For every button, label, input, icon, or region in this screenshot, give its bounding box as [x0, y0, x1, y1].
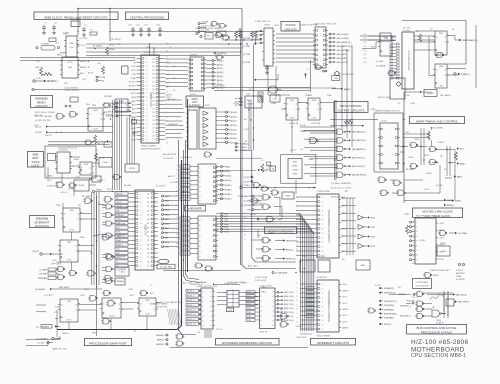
- capacitor osc: [238, 28, 242, 34]
- resistor pullup pair B2: [254, 31, 257, 38]
- capacitor bypass: [139, 27, 143, 33]
- gate busctl B: [260, 186, 269, 191]
- connector RESET bottom: [36, 325, 60, 329]
- title text: [411, 339, 469, 359]
- svg-text:H/Z-100 #85-2806: H/Z-100 #85-2806: [411, 339, 469, 346]
- swap CPU pin boxes left: [394, 43, 399, 79]
- svg-text:(BD) aIOR(L): (BD) aIOR(L): [337, 34, 350, 36]
- svg-text:11: 11: [296, 317, 298, 319]
- svg-text:97 LS04: 97 LS04: [170, 182, 178, 184]
- connector ext gates: [156, 334, 168, 346]
- cpu2 internal pin digits: [140, 193, 150, 267]
- bus AD 5: [179, 140, 197, 335]
- wait state shift register U4: [55, 152, 72, 173]
- svg-text:(C) QSYNC: (C) QSYNC: [241, 205, 252, 207]
- svg-text:(BD) aMRDC(L): (BD) aMRDC(L): [337, 42, 352, 44]
- svg-text:20: 20: [296, 206, 298, 208]
- svg-text:13: 13: [176, 217, 178, 219]
- text busctl: [286, 95, 313, 152]
- small ic U33: [380, 33, 391, 41]
- svg-text:PRE: PRE: [67, 301, 72, 303]
- svg-text:RP120 4MSA: RP120 4MSA: [430, 127, 443, 130]
- svg-text:(BD) MRDC(L): (BD) MRDC(L): [352, 132, 366, 134]
- svg-text:5: 5: [176, 239, 177, 241]
- bus to 8259: [252, 150, 296, 262]
- svg-text:INT8.5(L): INT8.5(L): [117, 235, 126, 237]
- svg-text:R60 SAD(L): R60 SAD(L): [440, 94, 452, 97]
- haze text columns: [166, 57, 415, 328]
- svg-text:8-4.7K: 8-4.7K: [341, 126, 348, 128]
- svg-text:(C) B08: (C) B08: [201, 21, 209, 23]
- svg-text:uRF(OBI): uRF(OBI): [400, 306, 409, 308]
- bottom right wires: [389, 293, 455, 316]
- capacitor bypass: [158, 27, 162, 33]
- svg-text:P6B: P6B: [247, 300, 251, 302]
- svg-text:T-HOLD: T-HOLD: [240, 147, 248, 149]
- svg-text:LS74: LS74: [424, 189, 430, 191]
- svg-text:(C) PNP: (C) PNP: [39, 273, 47, 275]
- gate int ctl A: [279, 314, 288, 320]
- 8253 internal pin digits: [322, 284, 324, 331]
- svg-text:RFSH(L): RFSH(L): [156, 335, 165, 337]
- svg-text:PRE: PRE: [93, 110, 98, 112]
- connector s0s1: [243, 176, 253, 183]
- wire swap feed: [330, 119, 378, 121]
- ground C3: [82, 33, 86, 37]
- gate br G: [415, 314, 424, 319]
- svg-text:MWR(L): MWR(L): [156, 344, 164, 346]
- svg-text:(C): (C): [364, 46, 367, 48]
- gate data enable: [203, 152, 212, 157]
- svg-text:A14(L): A14(L): [225, 193, 232, 196]
- ground C2: [52, 31, 56, 35]
- svg-text:U112: U112: [244, 129, 250, 131]
- svg-text:(C) DMA: (C) DMA: [244, 199, 252, 202]
- arrow swapready: [459, 39, 478, 42]
- gate cpu2 bottom B: [115, 278, 125, 285]
- gate addr low A: [194, 263, 203, 268]
- svg-text:POWER: POWER: [42, 44, 50, 46]
- box under LS10: [270, 95, 280, 102]
- svg-text:7.5 RST: 7.5 RST: [117, 215, 125, 217]
- wire tbus rows: [214, 88, 310, 91]
- svg-text:DRQ3OUT(L): DRQ3OUT(L): [384, 301, 397, 303]
- svg-text:16: 16: [296, 214, 298, 216]
- svg-text:2MHZ: 2MHZ: [440, 243, 446, 245]
- svg-text:AND TIMER CLOCK: AND TIMER CLOCK: [425, 214, 451, 218]
- svg-text:CS WR RD: CS WR RD: [316, 277, 327, 279]
- svg-text:(C): (C): [364, 38, 367, 40]
- wire tank row ext: [243, 150, 252, 152]
- svg-text:4-0.12: 4-0.12: [290, 150, 297, 152]
- connector boxed labels left U16: [180, 165, 198, 201]
- svg-text:U143: U143: [75, 177, 81, 179]
- svg-text:18: 18: [176, 234, 178, 236]
- svg-text:RED(L): RED(L): [447, 200, 454, 202]
- gate br D: [415, 307, 424, 312]
- wire y158 ext: [216, 157, 262, 159]
- svg-text:HOLDSS: HOLDSS: [407, 301, 416, 303]
- svg-text:INTR: INTR: [131, 93, 136, 95]
- svg-text:Vcc C12: Vcc C12: [79, 38, 88, 40]
- crystal X2 oval: [158, 259, 169, 263]
- connector column SD bus: [212, 60, 224, 90]
- svg-text:14: 14: [296, 223, 298, 225]
- svg-text:LS373: LS373: [129, 168, 136, 170]
- svg-text:MICROPROCESSOR: MICROPROCESSOR: [141, 149, 161, 151]
- connector 4M016: [35, 288, 102, 291]
- gate reset F: [261, 256, 270, 262]
- svg-text:U164 U165: U164 U165: [296, 337, 307, 339]
- svg-text:(C) INTA: (C) INTA: [242, 37, 251, 40]
- address buffer U16: [198, 164, 218, 204]
- svg-text:P7B: P7B: [247, 316, 251, 318]
- resistor swap right: [455, 152, 458, 160]
- svg-text:U150: U150: [56, 262, 62, 264]
- svg-text:4: 4: [244, 230, 245, 232]
- text u163: [248, 265, 272, 334]
- svg-text:PRE: PRE: [286, 95, 291, 97]
- gate swap t D: [409, 164, 418, 169]
- svg-text:OUT5: OUT5: [439, 252, 445, 254]
- svg-text:DUAL: DUAL: [456, 275, 462, 278]
- svg-text:(C) HLDA-OUT: (C) HLDA-OUT: [238, 195, 252, 198]
- svg-text:(BD) AIOWC(L): (BD) AIOWC(L): [352, 174, 367, 177]
- svg-text:(BD) aMWTC(L): (BD) aMWTC(L): [337, 46, 352, 48]
- svg-text:MN/MX: MN/MX: [116, 193, 123, 195]
- svg-text:19: 19: [166, 91, 168, 93]
- svg-text:SOD: SOD: [131, 70, 136, 72]
- ground C1: [42, 31, 46, 35]
- flip-flop timer: [437, 246, 450, 256]
- svg-text:HOLD CLK(L): HOLD CLK(L): [378, 97, 391, 99]
- small ic U101: [300, 260, 315, 272]
- connector INT: [32, 251, 63, 255]
- svg-text:8MHZ: 8MHZ: [433, 275, 439, 277]
- latch U163: [260, 288, 276, 329]
- gate cpu2 bottom A: [115, 267, 129, 276]
- text swap cpu top: [403, 28, 411, 33]
- arrow mhrq 2: [330, 124, 364, 127]
- wires interrupt ff internals: [63, 203, 106, 270]
- svg-text:7: 7: [166, 104, 167, 106]
- swap group box: [374, 113, 403, 172]
- svg-text:CLK: CLK: [116, 249, 121, 251]
- svg-text:ADRL 9: ADRL 9: [187, 304, 195, 307]
- svg-text:AB(L): AB(L): [457, 176, 463, 179]
- svg-text:A-8082: A-8082: [190, 54, 198, 57]
- svg-text:(BD) aINTA(L): (BD) aINTA(L): [337, 49, 350, 52]
- svg-text:2: 2: [166, 108, 167, 110]
- 8259 internal pin digits: [322, 197, 324, 257]
- CPU U60 left boxed labels: [115, 192, 128, 268]
- text osc: [195, 21, 271, 30]
- svg-text:CENTRAL PROCESSING: CENTRAL PROCESSING: [130, 15, 165, 19]
- svg-text:(BD) uPINT: (BD) uPINT: [458, 302, 469, 304]
- svg-text:R20 1K: R20 1K: [45, 135, 52, 137]
- arrow mhrq: [404, 91, 432, 94]
- svg-text:RES: RES: [68, 67, 73, 69]
- arrows red amb: [444, 199, 454, 207]
- svg-text:SD0(L): SD0(L): [230, 112, 237, 114]
- svg-text:T2000 PROCESSOR: T2000 PROCESSOR: [407, 50, 409, 71]
- wire left col verticals: [96, 196, 98, 336]
- wires into swap cpu left: [390, 44, 394, 78]
- text left of decoder: [244, 119, 250, 143]
- svg-text:8T 14: 8T 14: [249, 89, 255, 91]
- wire status row to ff: [362, 42, 380, 49]
- svg-text:AD8 - AD7: AD8 - AD7: [248, 265, 259, 268]
- svg-text:INTERRUPT: INTERRUPT: [35, 220, 50, 224]
- junction dots top rows: [187, 39, 256, 100]
- svg-text:(BD) C1(L): (BD) C1(L): [284, 308, 294, 310]
- svg-text:(C) S0: (C) S0: [243, 177, 250, 179]
- extra small parts mid-left: [65, 97, 112, 147]
- row hold: [407, 301, 416, 305]
- svg-text:12: 12: [244, 226, 246, 228]
- cpu1 internal pin digits: [146, 58, 155, 141]
- svg-text:PWL-7: PWL-7: [181, 253, 188, 255]
- bus AD thick: [57, 160, 182, 330]
- svg-text:7: 7: [244, 222, 245, 224]
- svg-text:(C) RD: (C) RD: [233, 103, 240, 105]
- svg-text:SWL(L): SWL(L): [62, 333, 69, 335]
- text label swap note: [52, 348, 68, 351]
- svg-text:19: 19: [176, 195, 178, 197]
- svg-text:RESET(L): RESET(L): [47, 81, 58, 83]
- connector RDY arrow 2: [35, 131, 113, 134]
- svg-text:(C) RDY CE 7B3: (C) RDY CE 7B3: [35, 120, 51, 122]
- svg-text:19: 19: [244, 213, 246, 215]
- left arrow rows bottom right: [379, 287, 398, 326]
- bus AD 3: [186, 140, 200, 280]
- svg-text:A15-A8: A15-A8: [124, 184, 132, 187]
- gate osc out: [423, 273, 432, 278]
- svg-text:1-8082 CPU1 ST: 1-8082 CPU1 ST: [255, 21, 271, 23]
- svg-text:U163: U163: [297, 326, 303, 328]
- svg-text:(C) T-BUS(L): (C) T-BUS(L): [180, 157, 192, 159]
- svg-text:SD2(L): SD2(L): [230, 121, 237, 123]
- svg-text:3: 3: [166, 125, 167, 127]
- svg-text:GATE2: GATE2: [342, 327, 349, 330]
- svg-text:LABEL S.D. P65: LABEL S.D. P65: [52, 348, 68, 351]
- flip-flop busctl U40: [284, 98, 300, 120]
- sip box small: [258, 92, 263, 102]
- svg-text:18: 18: [244, 235, 246, 237]
- gate LS00 right: [314, 65, 322, 70]
- svg-text:(C) T-HOLD: (C) T-HOLD: [214, 86, 226, 88]
- gate extra mid2: [84, 140, 92, 145]
- svg-text:SWAPREADY(L): SWAPREADY(L): [462, 39, 478, 42]
- hold box right: [390, 78, 405, 99]
- and gate column bus outputs: [333, 129, 367, 178]
- text 100k: [95, 150, 105, 160]
- svg-text:74LS164 FLIP-FLOP: 74LS164 FLIP-FLOP: [58, 148, 77, 150]
- svg-text:ADRL 2: ADRL 2: [187, 290, 195, 293]
- junction dots clock: [77, 8, 110, 49]
- ground C18: [265, 71, 269, 75]
- interval timer U103 8253: [317, 280, 341, 332]
- svg-text:LS08: LS08: [414, 139, 420, 141]
- svg-text:8T LS373: 8T LS373: [156, 186, 166, 188]
- svg-text:10: 10: [296, 305, 298, 307]
- svg-text:PRE: PRE: [305, 95, 310, 97]
- svg-text:(C): (C): [364, 34, 367, 36]
- label bus control output: [334, 102, 368, 113]
- status buffer U21: [313, 27, 328, 68]
- svg-text:(C) WR: (C) WR: [243, 54, 250, 56]
- wire br verticals: [444, 291, 448, 318]
- svg-text:IRLAMP(L): IRLAMP(L): [384, 287, 395, 290]
- ground osc: [238, 34, 242, 38]
- svg-text:19: 19: [244, 217, 246, 219]
- flip-flop swap2 U32: [433, 64, 449, 88]
- text bfr above: [52, 260, 62, 265]
- svg-text:14.7456 MHZ: 14.7456 MHZ: [160, 267, 173, 269]
- swap CPU U30: [402, 32, 414, 89]
- 9513 pin digits: [416, 222, 418, 262]
- svg-text:4.7K SIP RP2: 4.7K SIP RP2: [155, 307, 168, 309]
- svg-text:ACC: ACC: [460, 148, 465, 151]
- gate pwr C: [68, 271, 77, 276]
- gate int G: [88, 296, 97, 302]
- svg-text:3: 3: [166, 74, 167, 76]
- svg-text:U161: U161: [146, 47, 152, 49]
- flip-flop swap port U81: [100, 298, 123, 318]
- label ready circuits: [31, 96, 53, 108]
- wire 8259 left rows: [296, 197, 317, 256]
- wire cpu1 top vcc: [149, 45, 151, 56]
- diagonal merge stubs H8: [298, 214, 314, 234]
- flip-flop swap port U80: [58, 299, 80, 322]
- svg-text:RESET A: RESET A: [80, 60, 90, 63]
- junction dots 2: [56, 109, 305, 327]
- svg-text:SID: SID: [132, 74, 136, 76]
- box mhle right: [122, 66, 128, 74]
- svg-text:1-Lead: 1-Lead: [403, 30, 410, 32]
- svg-text:9B WAIT: 9B WAIT: [68, 188, 77, 191]
- svg-text:(C) UPDATE: (C) UPDATE: [36, 337, 48, 340]
- tiny box on wire: [132, 120, 137, 124]
- arrow AMB: [332, 88, 351, 91]
- svg-text:(BD) C4(L): (BD) C4(L): [284, 292, 294, 294]
- gate busctl clk: [308, 138, 318, 144]
- connector column tank: [235, 143, 249, 153]
- wire swap spine: [403, 92, 405, 203]
- inter-cpu signal rows: [104, 102, 132, 118]
- flip-flop swap port U82: [137, 298, 158, 316]
- resistor swap R: [419, 34, 422, 42]
- svg-text:LATF: LATF: [293, 173, 299, 176]
- svg-text:SD4(L): SD4(L): [230, 129, 237, 131]
- gate LS08: [99, 158, 112, 168]
- svg-text:GEXMR(L): GEXMR(L): [384, 309, 394, 311]
- svg-text:RDY2: RDY2: [107, 189, 113, 191]
- svg-text:ADDR BUFR: ADDR BUFR: [188, 207, 202, 210]
- wire osc to status: [110, 31, 264, 33]
- svg-text:(BD) MWTC(L): (BD) MWTC(L): [352, 140, 366, 142]
- svg-text:A13(L): A13(L): [225, 188, 232, 191]
- svg-text:U140: U140: [308, 159, 314, 161]
- svg-text:SD7(L): SD7(L): [217, 88, 224, 90]
- svg-text:INT SAMP: INT SAMP: [82, 195, 92, 198]
- tp circle mid: [133, 132, 139, 135]
- svg-text:BLUE: BLUE: [109, 45, 115, 47]
- PAL right rows: [239, 293, 252, 305]
- gate reset C: [265, 217, 274, 223]
- latch U90 left boxed labels: [186, 289, 201, 325]
- svg-text:(C) 65INT: (C) 65INT: [117, 256, 127, 258]
- svg-text:18: 18: [166, 79, 168, 81]
- text below waitstate: [47, 182, 77, 191]
- status latch U20: [262, 28, 275, 66]
- svg-text:(C) RD: (C) RD: [244, 46, 251, 48]
- wire cpu1 right fan low: [165, 100, 184, 138]
- svg-text:(C) C12(F): (C) C12(F): [240, 185, 250, 187]
- svg-text:8259A Master: 8259A Master: [300, 333, 313, 336]
- flip-flop ready U2: [86, 108, 105, 131]
- svg-text:(C) A8C(L): (C) A8C(L): [217, 52, 227, 55]
- svg-text:C40 0.1: C40 0.1: [56, 182, 64, 184]
- capacitor bypass: [147, 27, 151, 33]
- svg-text:U133: U133: [408, 157, 414, 159]
- svg-text:ADRL 14: ADRL 14: [187, 313, 196, 316]
- svg-text:(C): (C): [364, 54, 367, 56]
- svg-text:U163 8T: U163 8T: [260, 332, 268, 334]
- text low 9t5: [54, 307, 59, 315]
- gate br A: [367, 308, 375, 313]
- wire amb row: [216, 170, 256, 172]
- text density 2: [34, 86, 446, 336]
- svg-text:PRE: PRE: [56, 205, 61, 207]
- svg-text:4-7.5K TRACE CUT: 4-7.5K TRACE CUT: [163, 301, 182, 304]
- svg-text:AB3(L): AB3(L): [455, 200, 462, 203]
- resistor R6: [94, 135, 97, 144]
- svg-text:2-8082: 2-8082: [46, 176, 53, 178]
- clock ic internal text: [68, 43, 75, 69]
- arrow swap out3: [454, 175, 463, 178]
- svg-text:(C) 2MHZ: (C) 2MHZ: [458, 233, 468, 235]
- svg-text:INTERRUPT CIRCUITS: INTERRUPT CIRCUITS: [317, 341, 349, 345]
- long row y187: [240, 185, 316, 189]
- svg-text:11: 11: [413, 247, 415, 249]
- svg-text:86 SWAP: 86 SWAP: [406, 168, 416, 171]
- 9513 right labels: [439, 223, 445, 261]
- svg-text:S-ACK: S-ACK: [438, 141, 445, 144]
- interrupt right labels: [117, 205, 129, 283]
- svg-text:SWAP TIMING AND CONTROL: SWAP TIMING AND CONTROL: [416, 119, 459, 123]
- gate extra mid1: [102, 103, 110, 108]
- clock generator U1 bottom: [60, 57, 80, 78]
- svg-text:PWRFAIL: PWRFAIL: [38, 277, 48, 280]
- svg-text:LS161: LS161: [419, 240, 426, 242]
- resistor busctl R: [344, 120, 353, 123]
- text swap bottom rows: [331, 127, 443, 199]
- crystal Y1: [71, 21, 80, 27]
- wires latch fan right: [206, 61, 212, 88]
- svg-text:2: 2: [176, 165, 177, 167]
- wire v352: [351, 45, 353, 100]
- quad flip-flop U50: [378, 123, 400, 169]
- text ready area: [47, 143, 104, 182]
- svg-text:BATTERY: BATTERY: [456, 272, 466, 275]
- svg-text:18: 18: [217, 82, 219, 84]
- junction dot scatter: [77, 31, 404, 291]
- wire ready long: [34, 89, 138, 91]
- flip-flop int U71: [58, 240, 80, 262]
- ground bypass: [131, 33, 135, 37]
- U163 right connector rows: [275, 291, 294, 321]
